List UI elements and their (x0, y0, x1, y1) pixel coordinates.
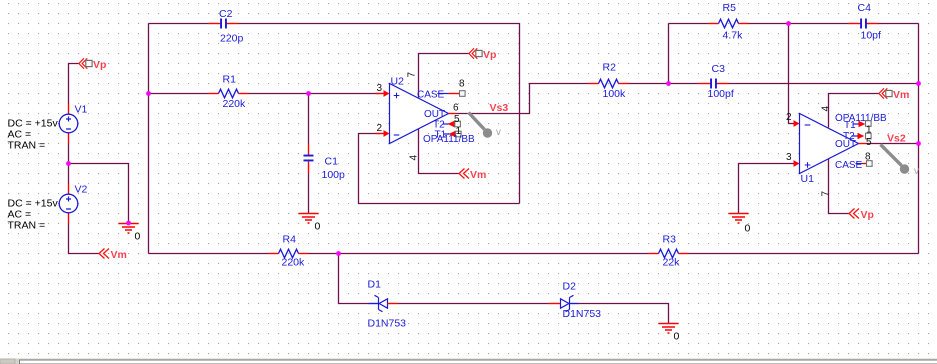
wire R5 right to C4 left (749, 23, 849, 25)
svg-text:5: 5 (866, 137, 872, 148)
svg-text:Vs3: Vs3 (490, 102, 509, 114)
svg-text:5: 5 (454, 114, 460, 125)
svg-text:CASE: CASE (417, 90, 445, 101)
ground G3 node 0 (729, 214, 751, 235)
U1 pin 2 input (794, 120, 800, 127)
junction node R2-C3 (666, 81, 671, 86)
svg-text:4.7k: 4.7k (723, 30, 744, 42)
svg-text:10pf: 10pf (861, 30, 882, 42)
V2 value text DC/AC/TRAN (8, 198, 59, 232)
svg-text:C2: C2 (219, 8, 233, 20)
junction node R1-C1 (146, 91, 151, 96)
ground G2 node 0 (299, 214, 321, 233)
svg-text:100p: 100p (322, 169, 346, 181)
svg-text:Vm: Vm (111, 249, 127, 261)
svg-text:3: 3 (377, 83, 383, 94)
off-page connector Vm (U1 pin4) (879, 88, 909, 101)
wire right vertical rail (918, 24, 920, 254)
op-amp U1 OPA111/BB (786, 106, 887, 197)
svg-text:V2: V2 (75, 184, 88, 196)
wire D1 to D2 (399, 303, 549, 305)
svg-text:C4: C4 (858, 2, 872, 14)
wire R1 left segment (149, 93, 209, 95)
off-page connector Vp (left, V1 top) (79, 58, 107, 71)
U2 pin 3 input (376, 93, 385, 95)
svg-text:v: v (914, 166, 919, 177)
junction node R5-C4 (786, 21, 791, 26)
off-page connector Vp (U2 pin7) (469, 48, 497, 61)
svg-text:2: 2 (377, 123, 383, 134)
svg-text:100k: 100k (603, 88, 627, 100)
wire R1 right to U2 pin3 (249, 93, 380, 95)
svg-text:v: v (496, 127, 501, 138)
svg-text:D1N753: D1N753 (368, 318, 407, 330)
junction node right rail C3 (916, 81, 921, 86)
svg-text:R4: R4 (283, 234, 297, 246)
wire R2 right to C3 left (629, 83, 699, 85)
svg-text:22k: 22k (663, 257, 681, 269)
junction node ground G1 (126, 221, 131, 226)
voltage probe at Vs3 (469, 113, 502, 139)
wire bottom rail left to R4 (149, 253, 269, 255)
ground G1 node 0 (119, 224, 141, 243)
U1 T2 pin 5 (852, 135, 858, 137)
junction node V1-V2 (66, 161, 71, 166)
svg-text:7: 7 (821, 191, 832, 197)
capacitor C1 100p (304, 144, 346, 182)
off-page connector Vm (U2 pin4) (459, 169, 486, 182)
svg-text:6: 6 (453, 103, 459, 114)
off-page connector Vp (U1 pin7) (849, 209, 874, 222)
svg-text:D1: D1 (368, 279, 382, 291)
svg-text:220k: 220k (223, 98, 247, 110)
svg-text:D1N753: D1N753 (563, 308, 602, 320)
wire node R4 down to diode row (339, 254, 369, 304)
svg-text:R1: R1 (223, 74, 237, 86)
capacitor C2 220p (209, 8, 244, 45)
wire C3 right to right rail (729, 83, 919, 85)
svg-text:220p: 220p (220, 33, 244, 45)
U1 T1 pin 1 (853, 123, 859, 125)
zener diode D1 D1N753 (368, 279, 407, 330)
ground G4 node 0 (659, 324, 680, 343)
op-amp U2 OPA111/BB (376, 72, 476, 161)
junction node C1 top (306, 91, 311, 96)
svg-text:8: 8 (865, 152, 871, 163)
resistor R1 220k (209, 74, 249, 111)
svg-text:7: 7 (407, 72, 418, 78)
wire R4 to R3 (309, 253, 649, 255)
svg-text:Vp: Vp (861, 209, 874, 221)
svg-text:OUT: OUT (424, 109, 445, 120)
svg-text:T1: T1 (844, 120, 856, 131)
resistor R4 220k (269, 234, 309, 269)
svg-text:4: 4 (821, 106, 832, 112)
svg-text:3: 3 (786, 152, 792, 163)
svg-text:0: 0 (674, 331, 680, 343)
svg-text:0: 0 (135, 231, 141, 243)
svg-text:0: 0 (315, 221, 321, 233)
wire V1 bottom to V2 top (68, 144, 70, 184)
svg-text:Vm: Vm (470, 169, 486, 181)
voltage source V2 (59, 184, 87, 224)
svg-text:R5: R5 (723, 2, 737, 14)
wire C2 right to corner down to feedback (239, 24, 520, 204)
U2 pin 2 input (376, 133, 385, 135)
svg-text:Vs2: Vs2 (887, 133, 906, 145)
wire D2 to ground G4 (579, 304, 669, 324)
svg-text:Vp: Vp (93, 59, 106, 71)
wire C1 top connection (308, 94, 310, 144)
voltage probe at Vs2 (881, 145, 920, 178)
svg-text:Vp: Vp (483, 49, 496, 61)
wire U1 pin4 to Vm connector (829, 94, 879, 128)
wire C4 right to right rail (879, 23, 919, 25)
wire node R5C4 down to U1 pin2 (789, 24, 795, 124)
capacitor C3 100pf (699, 63, 734, 100)
off-page connector Vm (left, V2 bottom) (99, 249, 127, 262)
U1 OUT pin 6 (859, 143, 867, 145)
svg-text:U1: U1 (801, 173, 815, 185)
wire U2 pin4 to Vm connector (419, 129, 459, 174)
wire U1 pin3 to ground G3 (739, 164, 795, 214)
wire U1 output Vs2 to right rail (867, 143, 919, 145)
junction node R4 diode branch (336, 251, 341, 256)
wire V1 top to Vp connector (69, 64, 79, 104)
svg-text:220k: 220k (282, 257, 306, 269)
U2 CASE pin 8 (438, 93, 449, 95)
resistor R3 22k (649, 234, 689, 269)
svg-text:Vm: Vm (893, 89, 909, 101)
resistor R2 100k (589, 62, 629, 101)
wire U2 pin7 to Vp connector (419, 54, 469, 98)
svg-text:R3: R3 (663, 234, 677, 246)
U2 OUT pin 6 (449, 113, 457, 115)
wire V2 bottom to Vm connector (69, 224, 99, 254)
svg-text:R2: R2 (603, 62, 617, 74)
junction node right rail Vs2 (916, 141, 921, 146)
svg-text:U2: U2 (391, 76, 405, 88)
svg-text:C3: C3 (712, 63, 726, 75)
U2 T1 pin 1 (444, 133, 450, 135)
svg-text:0: 0 (745, 223, 751, 235)
wire U2 pin2 feedback loop (359, 134, 520, 204)
wire C1 bottom to ground G2 (308, 174, 310, 214)
wire U1 pin7 to Vp connector (829, 159, 849, 214)
svg-text:TRAN =: TRAN = (8, 220, 46, 232)
wire node R2C3 up to R5 line (668, 24, 670, 84)
svg-text:V1: V1 (75, 104, 88, 116)
resistor R5 4.7k (709, 2, 749, 42)
svg-text:TRAN =: TRAN = (8, 140, 46, 152)
wire node V1V2 to ground G1 (69, 164, 129, 224)
svg-text:4: 4 (409, 155, 420, 161)
zener diode D2 D1N753 (549, 281, 602, 321)
wire left vertical rail (148, 24, 150, 254)
svg-text:CASE: CASE (835, 160, 863, 171)
wire R5 left segment (669, 23, 709, 25)
voltage source V1 (59, 104, 87, 144)
svg-text:C1: C1 (325, 156, 339, 168)
UI bottom strip (0, 359, 937, 364)
wire R3 to right rail (689, 253, 919, 255)
wire C2 top left segment (149, 23, 209, 25)
svg-text:OPA111/BB: OPA111/BB (423, 134, 475, 145)
V1 value text DC/AC/TRAN (8, 118, 59, 152)
svg-text:8: 8 (459, 79, 465, 90)
U1 CASE pin 8 (856, 163, 863, 165)
U1 pin 3 input (794, 160, 800, 167)
svg-text:OUT: OUT (835, 139, 856, 150)
svg-text:D2: D2 (563, 281, 577, 293)
svg-text:100pf: 100pf (708, 88, 734, 100)
svg-text:2: 2 (786, 112, 792, 123)
wire U2 output Vs3 node (457, 84, 589, 114)
U2 T2 pin 5 (443, 123, 449, 125)
capacitor C4 10pf (849, 2, 882, 42)
